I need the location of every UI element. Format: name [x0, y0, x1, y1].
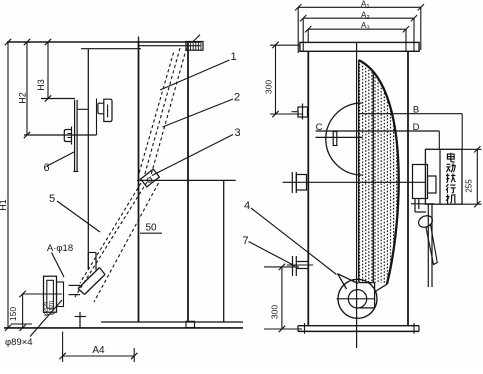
svg-text:5: 5	[49, 193, 55, 205]
svg-text:H3: H3	[36, 79, 46, 91]
svg-text:A2: A2	[361, 10, 370, 21]
svg-text:φ170: φ170	[49, 300, 56, 315]
svg-text:150: 150	[8, 307, 18, 321]
svg-text:A·φ18: A·φ18	[47, 243, 73, 254]
svg-text:H1: H1	[0, 199, 8, 211]
svg-text:300: 300	[264, 80, 274, 94]
svg-text:A3: A3	[361, 21, 370, 32]
svg-text:3: 3	[234, 127, 240, 139]
svg-text:D: D	[413, 122, 420, 133]
svg-text:A4: A4	[92, 345, 105, 356]
svg-text:B: B	[413, 104, 419, 115]
svg-text:1: 1	[230, 51, 236, 63]
svg-text:6: 6	[43, 162, 49, 174]
svg-text:C: C	[316, 122, 323, 133]
svg-text:H2: H2	[18, 92, 28, 104]
svg-text:255: 255	[465, 179, 474, 193]
svg-text:φ89×4: φ89×4	[5, 337, 33, 348]
svg-text:A1: A1	[361, 0, 370, 10]
svg-text:300: 300	[270, 305, 280, 319]
svg-text:7: 7	[242, 235, 248, 247]
svg-text:4: 4	[244, 200, 250, 212]
svg-text:50: 50	[145, 223, 157, 234]
svg-text:2: 2	[234, 92, 240, 104]
